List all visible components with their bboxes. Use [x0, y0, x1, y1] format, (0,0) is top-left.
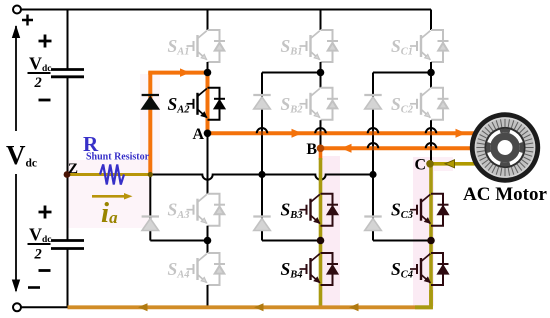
svg-text:SB4: SB4 [281, 259, 303, 281]
node junction S_B3/S_B4 [317, 237, 325, 245]
IGBT S_C1 [410, 30, 449, 62]
svg-text:SA3: SA3 [168, 200, 190, 222]
wire clamp branch B lower horizontal [262, 240, 321, 242]
wire orange stub below node B [319, 148, 323, 160]
capacitor C1 plus sign [39, 35, 52, 48]
wire olive Z to clamp A (through shunt) [68, 173, 151, 176]
IGBT S_C4 [410, 253, 449, 285]
IGBT S_A1 [187, 30, 226, 62]
node Z-rail clamp C [369, 171, 376, 178]
wire orange clamp A to junction1 [148, 71, 207, 75]
node Z-rail clamp B [258, 171, 265, 178]
wire crossing trace legB over A line [320, 131, 322, 136]
wire clamp branch C upper horizontal [373, 72, 431, 74]
wire crossing trace clampC over A line [372, 131, 374, 136]
capacitor C2 minus sign [39, 269, 51, 272]
wire olive phase C line from motor [431, 162, 478, 166]
node A [204, 130, 212, 138]
wire leg A S_A1 to junction [207, 62, 209, 88]
pink highlight region leg A clamp path [140, 74, 160, 174]
svg-text:SC1: SC1 [391, 36, 413, 58]
IGBT S_B3 [300, 194, 339, 226]
svg-text:2: 2 [34, 247, 42, 263]
wire leg A top [207, 10, 209, 31]
wire leg C top [430, 10, 432, 31]
svg-text:Vdc: Vdc [6, 140, 37, 170]
positive terminal [13, 6, 21, 14]
arrow on phase A line middle [292, 129, 303, 138]
wire leg A node A to S_A3 (crosses Z rail) [207, 133, 209, 193]
wire crossing trace legC over A line [430, 131, 432, 136]
Vdc arrowhead down [12, 280, 20, 293]
clamp diode D_B2 (lower, gray) [253, 217, 270, 231]
pink highlight region switches SC3 SC4 [413, 157, 434, 306]
node Z [64, 171, 71, 178]
wire leg A S_A3 to junction2 [207, 226, 209, 253]
wire clamp branch B upper horizontal [262, 72, 321, 74]
wire hop legB over phase A line [315, 128, 326, 133]
arrow on bottom rail right [349, 303, 359, 311]
wire leg B top [320, 10, 322, 31]
wire leg C S_C2 to node C [430, 120, 432, 164]
wire olive corner at leg C bottom [415, 290, 431, 307]
pink highlight region shunt-resistor / ia area [68, 160, 150, 228]
IGBT S_A3 [187, 194, 226, 226]
wire leg A S_A4 to bottom rail [207, 285, 209, 307]
clamp diode D_A2 (lower, gray) [142, 217, 159, 231]
svg-text:SA2: SA2 [168, 94, 191, 116]
wire orange phase A line to motor [208, 131, 479, 135]
arrow on bottom rail middle [254, 303, 264, 311]
wire orange phase B line from motor [321, 146, 479, 150]
node junction S_A3/S_A4 [204, 237, 212, 245]
svg-text:SA1: SA1 [168, 36, 190, 58]
node junction S_A1/S_A2 [204, 69, 212, 77]
capacitor C1 (top Vdc/2) plates [51, 68, 84, 71]
negative terminal minus sign [28, 286, 40, 289]
wire left DC bus middle [67, 77, 69, 241]
Vdc arrow line lower [15, 174, 17, 291]
node C [426, 160, 434, 168]
capacitor C1 minus sign [39, 99, 51, 102]
wire olive leg B vertical [319, 158, 323, 307]
svg-text:A: A [192, 126, 204, 143]
node corner clamp A at Z rail [148, 172, 153, 177]
wire hop clampC over phase A line [368, 128, 379, 133]
wire clamp branch A lower horizontal [150, 240, 207, 242]
arrow on bottom rail left [138, 303, 148, 311]
wire leg C junction1 region [430, 62, 432, 88]
wire orange leg A junction to node A [206, 71, 210, 134]
wire neutral Z rail black segment with hops [150, 175, 373, 180]
IGBT S_C2 [410, 88, 449, 120]
svg-text:SB2: SB2 [281, 94, 304, 116]
node junction S_C3/S_C4 [427, 237, 435, 245]
current ia arrow [92, 195, 126, 198]
wire leg B junction1 region [320, 62, 322, 88]
svg-text:2: 2 [34, 75, 42, 91]
svg-text:B: B [306, 141, 317, 158]
clamp diode D_B1 (upper, gray) [253, 95, 270, 109]
svg-text:C: C [414, 157, 426, 174]
svg-text:SB1: SB1 [281, 36, 303, 58]
IGBT S_A2 [187, 88, 226, 120]
wire crossing trace legC over B line [430, 146, 432, 151]
svg-text:Z: Z [68, 161, 78, 177]
Vdc arrowhead up [12, 25, 20, 38]
wire crossing trace clampB over A line [261, 131, 263, 136]
wire clamp branch C vertical [372, 73, 374, 241]
arrow on phase A line near motor [456, 129, 467, 138]
IGBT S_B1 [300, 30, 339, 62]
IGBT S_A4 [187, 253, 226, 285]
wire hop clampC over phase B line [368, 143, 379, 148]
wire hop legC over phase A line [426, 128, 437, 133]
wire leg B S_B2 to node B [320, 120, 322, 148]
svg-text:AC Motor: AC Motor [463, 184, 547, 205]
Vdc arrow line upper [15, 26, 17, 131]
connection dot at motor edge [474, 161, 478, 165]
wire olive leg C vertical [429, 164, 433, 307]
arrow on orange clamp-A horizontal [180, 68, 190, 77]
svg-text:Vdc: Vdc [29, 225, 52, 246]
capacitor C2 plus sign [39, 206, 52, 219]
pink highlight region switches SB3 SB4 [320, 156, 341, 306]
node junction S_B1/S_B2 [317, 69, 325, 77]
IGBT S_B4 [300, 253, 339, 285]
wire DC top rail [17, 9, 431, 11]
svg-text:SC2: SC2 [391, 94, 414, 116]
node junction S_C1/S_C2 [427, 69, 435, 77]
svg-text:SA4: SA4 [168, 259, 190, 281]
arrow on phase C line [445, 160, 455, 168]
node B [317, 145, 325, 153]
IGBT S_B2 [300, 88, 339, 120]
wire clamp branch B vertical [261, 73, 263, 241]
wire clamp branch C lower horizontal [373, 240, 431, 242]
wire left DC bus upper [67, 10, 69, 70]
wire negative terminal to bus [20, 306, 68, 308]
svg-text:Vdc: Vdc [29, 54, 52, 75]
wire clamp branch A lower vertical [149, 175, 151, 241]
clamp diode D_C2 (lower, gray) [364, 217, 381, 231]
wire orange clamp A vertical (current path up) [148, 72, 152, 176]
negative terminal [13, 303, 21, 311]
svg-text:SC4: SC4 [391, 259, 413, 281]
wire bottom return rail (highlighted) [68, 305, 433, 309]
wire hop clampB over phase A line [257, 128, 268, 133]
arrow on phase B line [341, 144, 352, 153]
wire crossing trace clampC over B line [372, 146, 374, 151]
svg-text:Shunt Resistor: Shunt Resistor [86, 152, 150, 163]
capacitor C2 (bottom Vdc/2) plates [51, 239, 84, 242]
IGBT S_C3 [410, 194, 449, 226]
svg-text:SC3: SC3 [391, 200, 413, 222]
clamp diode D_C1 (upper, gray) [364, 95, 381, 109]
AC motor [470, 112, 540, 182]
clamp diode D_A1 (upper, black) [142, 95, 159, 109]
svg-text:SB3: SB3 [281, 200, 303, 222]
positive terminal plus sign [22, 15, 33, 26]
wire left DC bus lower [67, 249, 69, 308]
resistor R zigzag (shunt) [100, 165, 124, 185]
wire hop legC over phase B line [426, 143, 437, 148]
